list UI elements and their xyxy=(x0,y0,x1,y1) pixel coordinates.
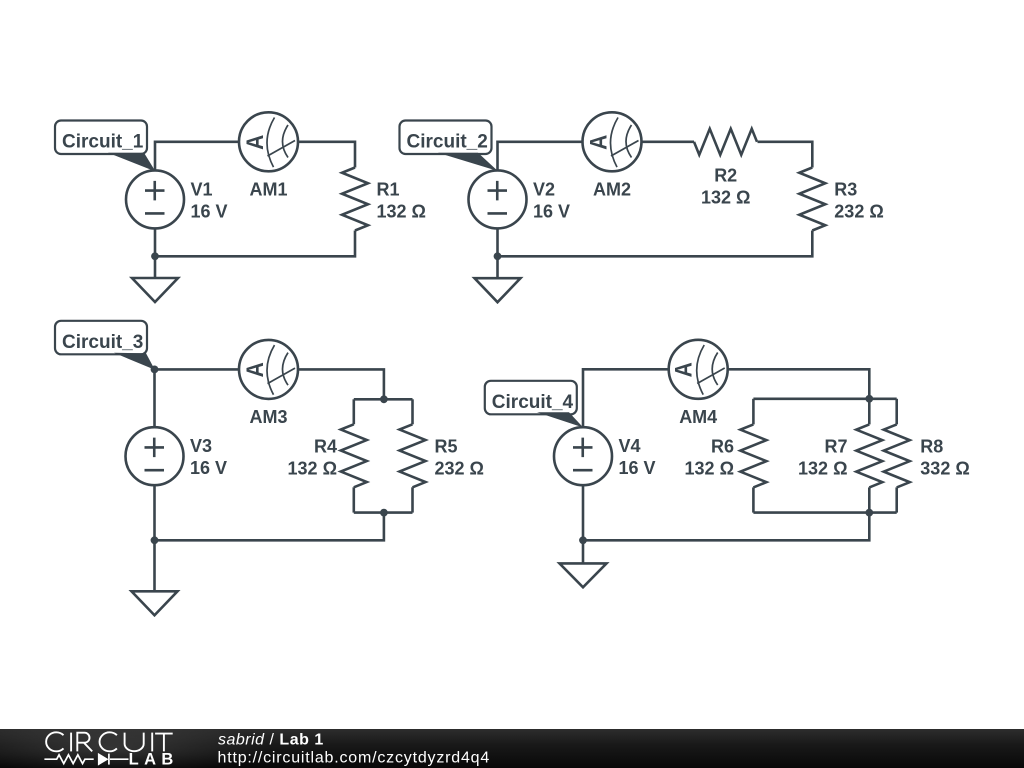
svg-text:R7: R7 xyxy=(824,436,847,456)
svg-text:A: A xyxy=(670,362,697,377)
svg-text:16 V: 16 V xyxy=(191,201,228,221)
svg-text:132 Ω: 132 Ω xyxy=(288,458,337,478)
svg-text:16 V: 16 V xyxy=(190,458,227,478)
svg-text:132 Ω: 132 Ω xyxy=(701,188,750,208)
svg-text:R6: R6 xyxy=(711,436,734,456)
svg-text:Circuit_2: Circuit_2 xyxy=(407,132,488,153)
svg-text:R3: R3 xyxy=(834,180,857,200)
svg-text:A: A xyxy=(242,135,269,150)
svg-text:232 Ω: 232 Ω xyxy=(834,202,883,222)
svg-text:332 Ω: 332 Ω xyxy=(920,458,969,478)
svg-text:V3: V3 xyxy=(190,436,212,456)
svg-text:http://circuitlab.com/czcytdyz: http://circuitlab.com/czcytdyzrd4q4 xyxy=(218,750,491,767)
svg-text:sabrid / Lab 1: sabrid / Lab 1 xyxy=(218,732,324,749)
svg-text:R5: R5 xyxy=(435,436,458,456)
svg-text:16 V: 16 V xyxy=(533,201,570,221)
svg-text:AM3: AM3 xyxy=(249,407,287,427)
svg-text:Circuit_4: Circuit_4 xyxy=(492,392,574,413)
svg-text:132 Ω: 132 Ω xyxy=(685,458,734,478)
svg-text:A: A xyxy=(242,362,269,377)
svg-text:Circuit_3: Circuit_3 xyxy=(62,332,143,353)
svg-text:V4: V4 xyxy=(619,436,641,456)
svg-text:232 Ω: 232 Ω xyxy=(435,458,484,478)
svg-text:AM4: AM4 xyxy=(679,407,717,427)
svg-text:132 Ω: 132 Ω xyxy=(798,458,847,478)
svg-text:LAB: LAB xyxy=(129,750,179,768)
svg-text:132 Ω: 132 Ω xyxy=(377,202,426,222)
svg-text:AM2: AM2 xyxy=(593,179,631,199)
svg-text:16 V: 16 V xyxy=(619,458,656,478)
svg-text:V1: V1 xyxy=(191,179,213,199)
svg-text:V2: V2 xyxy=(533,179,555,199)
svg-text:A: A xyxy=(585,135,612,150)
svg-text:R1: R1 xyxy=(377,180,400,200)
svg-text:R2: R2 xyxy=(714,166,737,186)
svg-text:AM1: AM1 xyxy=(249,179,287,199)
svg-text:Circuit_1: Circuit_1 xyxy=(62,132,144,153)
svg-text:R8: R8 xyxy=(920,436,943,456)
svg-text:R4: R4 xyxy=(314,436,337,456)
